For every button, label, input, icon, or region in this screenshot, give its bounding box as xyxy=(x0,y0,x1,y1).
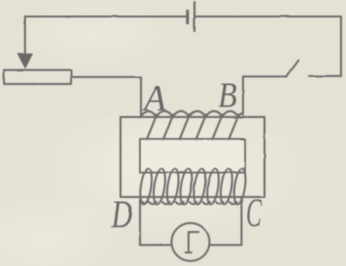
secondary coil loops xyxy=(138,168,247,205)
wire A down xyxy=(140,77,142,117)
wire C up xyxy=(240,199,242,245)
transformer core outer rect xyxy=(121,117,265,197)
wire battery left segment xyxy=(25,15,186,17)
arrow shaft xyxy=(24,56,26,63)
switch right contact wire xyxy=(309,75,341,77)
wire top left down xyxy=(24,17,26,57)
battery short plate xyxy=(186,11,189,23)
wire battery right segment xyxy=(196,15,341,17)
wire B down xyxy=(242,77,244,114)
arrow head xyxy=(17,54,33,70)
scan noise texture xyxy=(0,0,1,1)
switch blade xyxy=(287,61,299,77)
transformer core inner window xyxy=(140,139,245,173)
primary coil diagonal turns xyxy=(147,115,239,140)
battery long plate xyxy=(193,2,195,31)
wire right side down xyxy=(340,17,342,77)
wire D down xyxy=(139,200,141,245)
rheostat box xyxy=(4,70,71,84)
primary coil top arcs xyxy=(140,111,243,117)
wire switch to B corner xyxy=(243,75,287,77)
wire galvanometer to C xyxy=(210,244,242,246)
galvanometer gamma symbol xyxy=(186,232,199,253)
galvanometer circle xyxy=(172,223,210,261)
wire rheostat to A corner xyxy=(71,76,141,78)
wire D to galvanometer xyxy=(140,244,172,246)
